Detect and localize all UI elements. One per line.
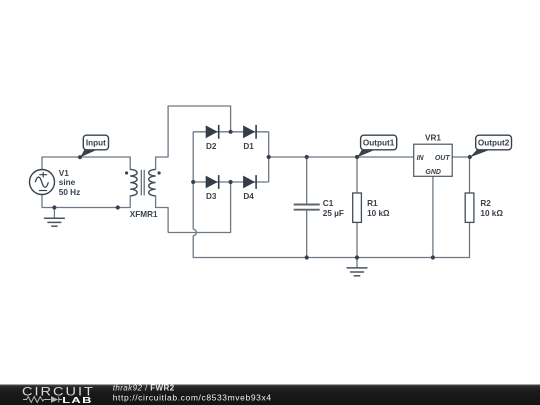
svg-text:http://circuitlab.com/c8533mve: http://circuitlab.com/c8533mveb93x4 bbox=[113, 393, 272, 403]
svg-text:10 kΩ: 10 kΩ bbox=[480, 209, 503, 218]
svg-text:50 Hz: 50 Hz bbox=[59, 188, 80, 197]
svg-text:25 µF: 25 µF bbox=[323, 209, 344, 218]
svg-text:LAB: LAB bbox=[62, 396, 93, 405]
svg-text:XFMR1: XFMR1 bbox=[130, 210, 158, 219]
svg-text:D4: D4 bbox=[243, 192, 254, 201]
svg-text:IN: IN bbox=[417, 155, 425, 162]
svg-text:Output2: Output2 bbox=[478, 138, 510, 147]
svg-text:Output1: Output1 bbox=[363, 138, 395, 147]
svg-text:OUT: OUT bbox=[435, 155, 451, 162]
svg-text:D3: D3 bbox=[206, 192, 217, 201]
svg-text:10 kΩ: 10 kΩ bbox=[367, 209, 390, 218]
svg-text:R1: R1 bbox=[367, 199, 378, 208]
svg-text:C1: C1 bbox=[323, 199, 334, 208]
svg-text:sine: sine bbox=[59, 178, 76, 187]
svg-text:VR1: VR1 bbox=[425, 134, 441, 143]
svg-text:D1: D1 bbox=[243, 142, 254, 151]
svg-text:GND: GND bbox=[425, 169, 441, 176]
svg-text:Input: Input bbox=[86, 138, 106, 147]
svg-text:D2: D2 bbox=[206, 142, 217, 151]
svg-text:R2: R2 bbox=[480, 199, 491, 208]
svg-text:V1: V1 bbox=[59, 169, 69, 178]
svg-text:thrak92 / FWR2: thrak92 / FWR2 bbox=[113, 384, 175, 393]
